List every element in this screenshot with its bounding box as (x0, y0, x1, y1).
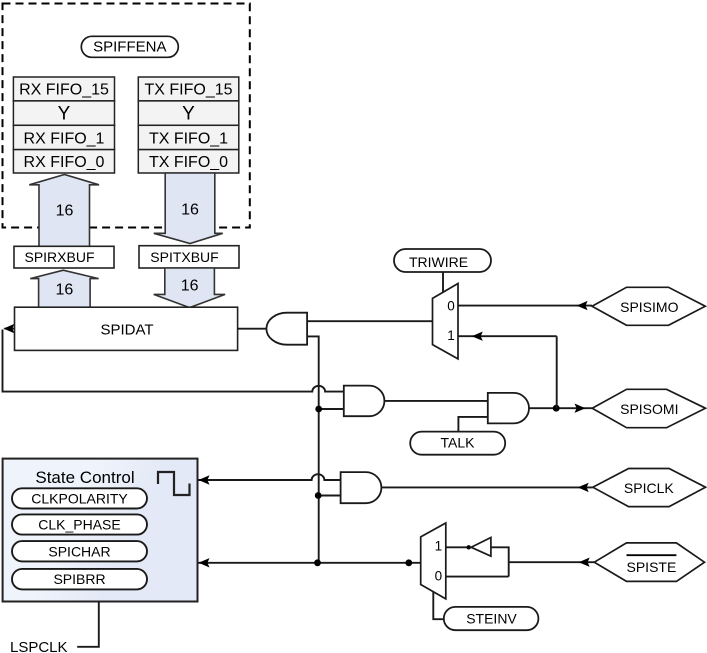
svg-text:Y: Y (58, 104, 71, 125)
svg-text:TRIWIRE: TRIWIRE (409, 254, 468, 270)
svg-text:TX FIFO_0: TX FIFO_0 (149, 154, 228, 171)
arrowhead into State Control lower (199, 558, 210, 567)
wire SPISTE into chip (509, 561, 595, 563)
svg-text:TX FIFO_15: TX FIFO_15 (144, 82, 232, 99)
svg-text:CLKPOLARITY: CLKPOLARITY (31, 491, 128, 507)
wire bus junction to U2 lower input (319, 408, 344, 410)
svg-text:RX FIFO_1: RX FIFO_1 (24, 131, 105, 148)
SPISIMO pin hexagon (592, 287, 705, 325)
SPITXBUF register (139, 246, 239, 268)
svg-text:SPIBRR: SPIBRR (53, 571, 105, 587)
svg-text:TX FIFO_1: TX FIFO_1 (149, 131, 228, 148)
block arrow 16-bit down TX FIFO (154, 173, 223, 244)
RX FIFO register table (13, 77, 114, 173)
wire STE select row: State Control to mux M2 (199, 562, 421, 564)
wire U2 output to U3 (384, 400, 487, 402)
wire LSPCLK into State Control (77, 602, 99, 647)
TALK oval (410, 432, 505, 455)
block arrow 16-bit up RX FIFO (29, 175, 99, 247)
junction dot bus/U4 (315, 492, 322, 499)
wire U3 output to SPISOMI (529, 407, 592, 409)
SPICLK pin hexagon (593, 469, 706, 507)
svg-text:16: 16 (56, 203, 74, 220)
svg-text:RX FIFO_0: RX FIFO_0 (24, 154, 105, 171)
junction dot on STE row (405, 559, 412, 566)
arrowhead SPISIMO into chip (577, 301, 588, 310)
wire TALK to U3 lower input (458, 417, 487, 432)
svg-text:1: 1 (435, 538, 443, 553)
SPIBRR oval (12, 569, 147, 590)
svg-text:SPIDAT: SPIDAT (100, 322, 153, 339)
svg-text:TALK: TALK (441, 435, 476, 451)
wire mux M1 input 0 to SPISIMO (458, 305, 592, 307)
svg-text:Y: Y (182, 104, 195, 125)
wire TRIWIRE select to mux M1 (442, 272, 444, 292)
svg-text:SPISIMO: SPISIMO (620, 299, 678, 315)
wire mux M1 input 1 (458, 335, 557, 337)
SPISTE pin hexagon with overline (594, 543, 704, 582)
wire SPIDAT left feedback with arrowhead (5, 328, 15, 330)
TX FIFO register table (138, 77, 239, 173)
svg-text:SPISTE: SPISTE (627, 559, 677, 575)
clock waveform glyph (158, 472, 190, 495)
block arrow 16-bit down SPITXBUF to SPIDAT (154, 268, 225, 308)
svg-text:0: 0 (435, 569, 443, 584)
SPIDAT register (15, 307, 238, 350)
svg-text:STEINV: STEINV (466, 611, 517, 627)
node dot at inverter tip (467, 545, 471, 549)
arrowhead SPICLK into chip (578, 483, 589, 492)
svg-text:0: 0 (447, 299, 455, 314)
arrowhead SPISOMI output (575, 404, 586, 413)
svg-text:SPITXBUF: SPITXBUF (150, 249, 218, 265)
SPIFFENA oval (81, 36, 178, 57)
junction dot SPISOMI branch (553, 405, 560, 412)
svg-text:SPIFFENA: SPIFFENA (93, 39, 166, 56)
svg-text:16: 16 (181, 202, 199, 219)
STEINV oval (444, 607, 539, 630)
wire vertical SPISOMI loopback to mux M1 input 1 (556, 336, 558, 408)
svg-text:16: 16 (56, 282, 74, 299)
wire SPIDAT right to AND gate U1 (238, 328, 267, 330)
svg-text:State Control: State Control (35, 468, 134, 487)
TRIWIRE oval (394, 249, 491, 272)
SPICHAR oval (12, 541, 147, 561)
arrowhead SPISTE into chip (579, 558, 590, 567)
wire SPICLK path: State Control to AND gate U4 with hop (199, 474, 341, 480)
AND gate U4 (341, 472, 382, 503)
CLK_PHASE oval (12, 514, 147, 534)
wire U1 lower to vertical bus (307, 336, 319, 562)
wire mux M2 input 1 to inverter (446, 546, 471, 548)
AND gate U3 (488, 393, 529, 424)
svg-text:LSPCLK: LSPCLK (10, 639, 68, 653)
wire bus to U4 lower input (318, 495, 341, 497)
svg-text:SPICLK: SPICLK (624, 480, 674, 496)
CLKPOLARITY oval (12, 488, 147, 508)
wire mux M2 select to STEINV (433, 592, 444, 619)
FIFO enable dashed box (3, 4, 250, 228)
mux M2 (421, 523, 446, 599)
wire mux M2 input 0 (446, 576, 509, 578)
svg-text:CLK_PHASE: CLK_PHASE (38, 517, 120, 533)
AND gate U2 (344, 386, 385, 417)
mux M1 (433, 284, 459, 359)
wire U4 tip to SPICLK (381, 486, 592, 488)
SPISOMI pin hexagon (592, 389, 705, 427)
arrowhead into State Control upper (199, 475, 210, 484)
AND gate U1 (left-facing) (266, 313, 307, 345)
block arrow 16-bit up SPIDAT to SPIRXBUF (30, 270, 98, 307)
svg-text:SPISOMI: SPISOMI (620, 401, 678, 417)
svg-text:SPIRXBUF: SPIRXBUF (24, 249, 94, 265)
svg-text:16: 16 (181, 278, 199, 295)
svg-text:RX FIFO_15: RX FIFO_15 (19, 82, 109, 99)
inverter G1 (471, 538, 491, 557)
wire U1 to mux M1 output (307, 320, 432, 322)
junction dot bus/U2 (315, 406, 322, 413)
svg-text:SPICHAR: SPICHAR (48, 543, 110, 559)
State Control block (3, 459, 198, 602)
wire inverter to STE vertical (491, 547, 509, 576)
arrowhead into mux M1 input 1 (472, 332, 483, 341)
svg-text:1: 1 (447, 328, 455, 343)
SPIRXBUF register (14, 246, 114, 268)
junction dot bus end (314, 559, 321, 566)
